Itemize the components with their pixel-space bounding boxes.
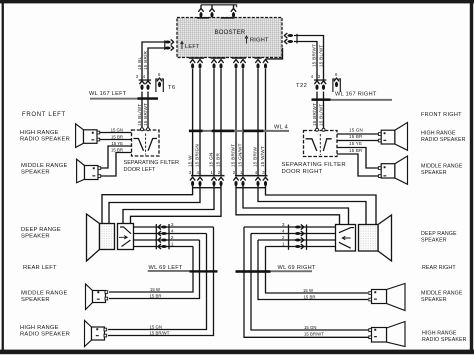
front left high speaker terminal b	[97, 138, 100, 141]
left filter crossover symbol right	[148, 139, 157, 151]
wire 15 BR/W vertical w7	[257, 69, 259, 175]
wire 15 YE filter to front left mid	[101, 146, 132, 168]
left filter crossover symbol left	[134, 139, 144, 151]
svg-text:RADIO SPEAKER: RADIO SPEAKER	[20, 137, 70, 143]
right deep terminal pin 2	[295, 238, 304, 242]
booster left output housing bar	[164, 40, 165, 50]
left channel connector bar	[191, 175, 225, 177]
svg-text:15 W/WT: 15 W/WT	[260, 146, 265, 167]
front right high speaker terminal a	[378, 133, 381, 136]
WL 69 RIGHT gray bar	[271, 270, 313, 272]
wire w3 to left woofer filter	[123, 186, 214, 224]
center connector pin w8	[263, 177, 268, 186]
left deep range speaker cone	[87, 214, 100, 261]
booster bottom pin 5	[234, 60, 239, 69]
wire 15 BR filter to front right high	[337, 140, 378, 142]
wire 15 GN/WT vertical w6	[242, 69, 244, 175]
svg-text:MIDDLE RANGE: MIDDLE RANGE	[421, 291, 463, 297]
svg-text:WL 167 RIGHT: WL 167 RIGHT	[335, 92, 377, 98]
front right high range speaker cone	[395, 123, 408, 151]
right deep terminal pin 3	[295, 225, 304, 229]
left deep range filter box	[118, 224, 134, 250]
rear right high range speaker cone	[387, 322, 406, 347]
booster right output housing bar	[296, 34, 297, 44]
svg-text:15 W: 15 W	[150, 287, 161, 292]
front right high speaker plus	[384, 132, 386, 134]
svg-text:15 BL/WT: 15 BL/WT	[137, 104, 142, 126]
svg-text:T6: T6	[168, 85, 176, 91]
svg-text:15 GN: 15 GN	[349, 128, 363, 133]
booster top housing bar A	[197, 17, 209, 19]
booster bottom pin 3	[212, 60, 217, 69]
svg-text:15 BR/GN: 15 BR/GN	[195, 144, 200, 167]
wire left pin4 to rear left high a	[108, 234, 207, 330]
T22 housing bar	[314, 79, 326, 80]
center connector pin w1	[190, 177, 195, 186]
rear left middle range speaker box	[93, 291, 106, 303]
left deep terminal wire 2	[134, 239, 200, 241]
svg-text:15 BR: 15 BR	[304, 295, 316, 300]
right deep range speaker cone	[378, 215, 392, 261]
svg-text:15 BR: 15 BR	[216, 153, 221, 167]
svg-text:15 YE: 15 YE	[349, 141, 362, 146]
center connector pin w5	[234, 177, 239, 186]
rear left middle range speaker cone	[86, 284, 93, 310]
right deep range filter box	[336, 225, 356, 252]
svg-text:15 BR/WT: 15 BR/WT	[231, 144, 236, 167]
T6 pin a	[140, 81, 145, 90]
svg-text:15 BR: 15 BR	[111, 147, 123, 152]
svg-text:MIDDLE RANGE: MIDDLE RANGE	[21, 291, 68, 297]
rear right mid speaker minus	[374, 299, 377, 300]
front left high range speaker cone	[76, 124, 84, 148]
right deep connector rail inner	[306, 225, 308, 250]
right channel lower housing bar	[236, 187, 266, 188]
rear right middle range speaker cone	[387, 284, 406, 311]
svg-text:SPEAKER: SPEAKER	[21, 234, 50, 240]
svg-text:15 BR: 15 BR	[111, 134, 123, 139]
front right mid speaker terminal b	[378, 175, 381, 178]
center connector pin w6	[241, 177, 246, 186]
svg-text:DOOR LEFT: DOOR LEFT	[124, 167, 157, 173]
wire T6 a to left filter	[141, 92, 143, 129]
right deep terminal pin 1	[295, 244, 304, 248]
svg-text:RIGHT: RIGHT	[250, 38, 269, 44]
booster top connector pin 3	[231, 8, 236, 17]
wire w4 to left woofer filter	[131, 186, 222, 224]
right deep terminal wire 1	[266, 246, 336, 248]
rear left high terminal b	[104, 334, 107, 337]
wire booster right upper to T22	[294, 36, 324, 81]
left filter center dashed line	[145, 134, 147, 155]
wire T22 b to right filter	[323, 92, 325, 130]
svg-text:SPEAKER: SPEAKER	[21, 170, 50, 176]
WL 4 bus segment 3	[243, 130, 263, 133]
front left high range speaker box	[84, 130, 98, 144]
wire left pin3 to rear left high b	[108, 227, 214, 336]
svg-text:15 BR/WT: 15 BR/WT	[143, 103, 148, 126]
rear right high terminal a	[369, 329, 372, 332]
wire 15 GN vertical w3	[213, 69, 215, 175]
left deep terminal wire 1	[134, 246, 194, 248]
right filter crossover symbol right	[323, 139, 331, 151]
rear left mid terminal b	[105, 297, 108, 300]
wire 15 BR filter to front left high	[100, 139, 132, 141]
front right high speaker minus	[383, 140, 386, 141]
rear right middle range speaker box	[372, 290, 387, 304]
svg-text:RADIO SPEAKER: RADIO SPEAKER	[422, 337, 467, 343]
WL 69 LEFT gray bar	[148, 270, 190, 272]
front left middle range speaker box	[85, 166, 99, 180]
svg-text:15 BR/WT: 15 BR/WT	[312, 103, 317, 126]
svg-text:DEEP RANGE: DEEP RANGE	[21, 227, 61, 233]
WL 167 LEFT bus	[138, 97, 159, 100]
right deep filter high-pass symbol	[339, 228, 354, 233]
svg-text:15 YE: 15 YE	[111, 141, 123, 146]
svg-text:15 BR: 15 BR	[349, 134, 362, 139]
WL 167 RIGHT bus	[312, 98, 331, 101]
WL 69 RIGHT bus	[236, 270, 271, 273]
svg-text:15 GN: 15 GN	[150, 324, 162, 329]
front right high speaker terminal b	[378, 139, 381, 142]
svg-text:SEPARATING FILTER: SEPARATING FILTER	[282, 162, 347, 168]
booster top connector pin 2	[210, 8, 215, 17]
booster LEFT arrow	[181, 42, 184, 50]
wire T6 b to left filter	[147, 92, 149, 129]
T22 pin c	[334, 78, 339, 87]
wire 15 W/WT vertical w8	[265, 69, 267, 175]
right deep terminal wire 4	[251, 233, 336, 235]
rear left mid speaker minus	[97, 299, 100, 300]
wire w5 to right woofer filter	[236, 186, 340, 225]
svg-text:15 BR/WT: 15 BR/WT	[304, 331, 324, 336]
right filter terminal circle a	[316, 128, 319, 131]
T22 pin 6 bracket	[333, 79, 340, 92]
wire left pin2 to rear left mid b	[109, 240, 200, 299]
booster bottom pin 4	[219, 60, 224, 69]
svg-text:15 BL: 15 BL	[137, 57, 142, 70]
wire left pin1 to rear left mid a	[109, 247, 193, 293]
svg-text:15 BR/W: 15 BR/W	[253, 146, 258, 167]
svg-text:15 BL/WT: 15 BL/WT	[319, 104, 324, 126]
svg-text:SPEAKER: SPEAKER	[421, 170, 447, 176]
WL 4 bus gray segment 1	[203, 130, 212, 132]
booster bottom pin 6	[241, 60, 246, 69]
wire stub to top pin 1	[200, 5, 202, 8]
right deep range speaker body	[359, 225, 379, 252]
right filter terminal circle b	[322, 128, 325, 131]
rear right mid terminal a	[369, 292, 372, 295]
front left middle range speaker cone	[77, 159, 85, 183]
rear left high speaker plus	[96, 328, 98, 330]
WL 4 bus segment 1	[189, 130, 203, 133]
rear right mid terminal b	[369, 298, 372, 301]
right deep filter arrow symbol	[342, 236, 350, 239]
wire right pin1 to rear right mid a	[266, 247, 369, 294]
left deep connector rail inner	[155, 224, 157, 249]
svg-text:HIGH RANGE: HIGH RANGE	[422, 331, 457, 337]
front left mid speaker terminal b	[98, 175, 101, 178]
svg-text:HIGH RANGE: HIGH RANGE	[421, 131, 456, 137]
wire right pin3 to rear right high b	[244, 227, 369, 337]
right channel connector bar	[235, 175, 268, 177]
wire w6 to right woofer filter	[243, 186, 349, 225]
left deep connector rail outer	[168, 224, 170, 249]
rear right mid speaker plus	[374, 291, 376, 293]
rear left mid speaker plus	[97, 291, 99, 293]
svg-text:WL 4: WL 4	[274, 124, 288, 130]
svg-text:DEEP RANGE: DEEP RANGE	[421, 231, 457, 237]
booster bottom pin 7	[256, 60, 261, 69]
booster top connector pin 1	[199, 8, 204, 17]
center connector pin w7	[256, 177, 261, 186]
front right mid speaker minus	[383, 175, 386, 176]
front left high speaker terminal a	[97, 131, 100, 134]
T6 pin b	[146, 81, 151, 90]
svg-text:WL 69 RIGHT: WL 69 RIGHT	[278, 265, 316, 271]
booster top housing bar B	[221, 17, 235, 19]
right deep connector rail outer	[288, 225, 290, 250]
svg-text:REAR LEFT: REAR LEFT	[23, 265, 57, 271]
border frame left	[2, 0, 4, 354]
left deep filter low-pass symbol	[122, 240, 131, 246]
wire booster right lower to T22	[294, 42, 317, 81]
svg-text:REAR RIGHT: REAR RIGHT	[422, 265, 456, 271]
front left high speaker plus	[92, 132, 94, 134]
svg-text:15 GN: 15 GN	[304, 325, 316, 330]
svg-text:DOOR RIGHT: DOOR RIGHT	[282, 169, 323, 175]
right deep filter low-pass symbol	[339, 242, 351, 248]
front right middle range speaker cone	[395, 156, 408, 184]
left channel lower housing bar	[192, 187, 222, 188]
WL 4 bus segment 2	[212, 130, 235, 133]
wire booster internal elbow to pin 8	[266, 48, 283, 59]
svg-text:15 GN/WT: 15 GN/WT	[238, 143, 243, 167]
separating filter door right box	[304, 131, 338, 157]
WL 167 LEFT gray bar	[90, 98, 138, 100]
wire w1 to left woofer box	[102, 186, 193, 224]
center connector pin w4	[219, 177, 224, 186]
svg-text:T22: T22	[296, 83, 307, 89]
svg-text:15 BR: 15 BR	[349, 148, 362, 153]
booster bottom housing bar pair 1	[189, 57, 204, 59]
booster left output pin lower	[165, 46, 174, 50]
svg-text:WL 167 LEFT: WL 167 LEFT	[89, 91, 127, 97]
front left high speaker minus	[91, 139, 94, 140]
border frame top	[0, 0, 474, 3]
booster bottom pin 1	[190, 60, 195, 69]
rear left high range speaker cone	[85, 321, 92, 347]
T6 pin c	[157, 78, 162, 87]
svg-text:15 GN: 15 GN	[111, 127, 123, 132]
wire 15 BR filter to front left mid	[101, 153, 132, 177]
front right mid speaker terminal a	[378, 167, 381, 170]
booster bottom pin 8	[263, 60, 268, 69]
svg-text:15 W: 15 W	[303, 288, 314, 293]
svg-text:15 BR/R: 15 BR/R	[143, 50, 148, 70]
svg-text:FRONT LEFT: FRONT LEFT	[22, 112, 66, 118]
front right mid speaker plus	[384, 166, 386, 168]
wire 15 BR vertical w4	[220, 69, 222, 175]
wire T22 a to right filter	[316, 92, 318, 130]
svg-text:MIDDLE RANGE: MIDDLE RANGE	[21, 163, 68, 169]
front right middle range speaker box	[381, 164, 395, 178]
left deep terminal pin 4	[158, 231, 167, 235]
left deep range speaker body	[100, 224, 115, 250]
svg-text:15 W: 15 W	[187, 155, 192, 167]
rear right high speaker plus	[374, 329, 376, 331]
right deep terminal wire 3	[244, 226, 336, 228]
svg-text:SPEAKER: SPEAKER	[421, 238, 447, 244]
right deep terminal pin 4	[295, 231, 304, 235]
wire w7 to right woofer box	[258, 186, 366, 225]
booster RIGHT arrow	[245, 36, 248, 44]
svg-text:SPEAKER: SPEAKER	[421, 297, 447, 303]
wire 15 BR filter to front right mid	[337, 154, 378, 176]
booster bottom housing bar pair 4	[255, 57, 262, 59]
right deep terminal wire 2	[258, 239, 336, 241]
wire 15 GN filter to front right high	[337, 133, 378, 135]
rear left high terminal a	[104, 328, 107, 331]
svg-text:15 GN: 15 GN	[209, 152, 214, 167]
WL 69 LEFT bus	[190, 270, 218, 272]
booster U1 box	[177, 18, 282, 58]
svg-text:SPEAKER: SPEAKER	[21, 297, 50, 303]
left filter terminal circle a	[141, 128, 144, 131]
separating filter door left box	[132, 130, 160, 156]
rear right high range speaker box	[372, 328, 387, 343]
rear right high terminal b	[369, 336, 372, 339]
booster bottom pin 2	[198, 60, 203, 69]
left deep terminal pin 2	[158, 238, 167, 242]
wire stub to top pin 3	[233, 5, 235, 8]
center connector pin w2	[198, 177, 203, 186]
booster top supply line	[201, 5, 237, 7]
left deep terminal pin 3	[158, 225, 167, 229]
svg-text:HIGH RANGE: HIGH RANGE	[20, 325, 59, 331]
svg-text:HIGH RANGE: HIGH RANGE	[20, 130, 59, 136]
svg-text:RADIO SPEAKER: RADIO SPEAKER	[20, 332, 70, 338]
svg-text:BOOSTER: BOOSTER	[215, 29, 246, 36]
rear left high speaker minus	[96, 335, 99, 336]
wire 15 YE filter to front right mid	[337, 148, 378, 169]
svg-text:15 BL/WT: 15 BL/WT	[319, 45, 324, 67]
booster right output pin lower	[284, 39, 293, 43]
center connector pin w3	[212, 177, 217, 186]
svg-text:15 BR/WT: 15 BR/WT	[312, 44, 317, 67]
front left mid speaker minus	[92, 175, 95, 176]
left deep terminal wire 3	[134, 226, 214, 228]
wire right pin2 to rear right mid b	[258, 240, 368, 300]
left deep terminal pin 1	[158, 244, 167, 248]
booster right output pin upper	[284, 33, 293, 37]
booster bottom housing bar pair 3	[232, 57, 246, 59]
front right high range speaker box	[381, 130, 395, 144]
svg-text:SEPARATING FILTER: SEPARATING FILTER	[124, 160, 180, 166]
wire booster left upper to T6	[142, 42, 168, 80]
rear left high range speaker box	[92, 327, 105, 340]
left deep filter high-pass symbol	[120, 227, 131, 234]
svg-text:15 BR/WT: 15 BR/WT	[150, 330, 170, 335]
wire 15 GN filter to front left high	[100, 132, 132, 134]
T6 housing bar	[139, 79, 151, 80]
rear right high speaker minus	[374, 336, 377, 337]
rear left mid terminal a	[105, 291, 108, 294]
wire 15 W vertical w1	[192, 69, 194, 175]
T22 pin b	[321, 81, 326, 90]
WL 4 bus gray segment 3	[264, 130, 290, 132]
T6 pin 6 bracket	[156, 79, 163, 92]
svg-text:RADIO SPEAKER: RADIO SPEAKER	[421, 137, 466, 143]
border frame right	[470, 0, 473, 354]
booster left output pin upper	[165, 40, 174, 44]
wire w2 to left woofer box	[109, 186, 200, 224]
left deep terminal wire 4	[134, 233, 207, 235]
border frame bottom	[0, 350, 474, 355]
front left mid speaker terminal a	[98, 167, 101, 170]
right filter crossover symbol left	[306, 139, 317, 151]
WL 4 bus gray segment 2	[234, 130, 243, 132]
wire 15 BR/WT vertical w5	[235, 69, 237, 175]
left deep filter arrow symbol	[119, 236, 127, 239]
svg-text:FRONT RIGHT: FRONT RIGHT	[421, 112, 462, 118]
booster bottom housing bar pair 2	[211, 57, 226, 59]
wire right pin4 to rear right high a	[251, 234, 369, 331]
left filter terminal circle b	[147, 128, 150, 131]
svg-text:15 BR: 15 BR	[150, 294, 162, 299]
svg-text:MIDDLE RANGE: MIDDLE RANGE	[421, 164, 463, 170]
wire booster left lower to T6	[148, 48, 168, 80]
front left mid speaker plus	[93, 167, 95, 169]
wire stub to top pin 2	[211, 5, 213, 8]
WL 167 RIGHT gray bar	[330, 99, 392, 101]
wire 15 BR/GN vertical w2	[199, 69, 201, 175]
right filter center dashed line	[319, 134, 321, 155]
T22 pin a	[315, 81, 320, 90]
svg-text:LEFT: LEFT	[185, 44, 200, 50]
wire w8 to right woofer box	[266, 186, 377, 225]
